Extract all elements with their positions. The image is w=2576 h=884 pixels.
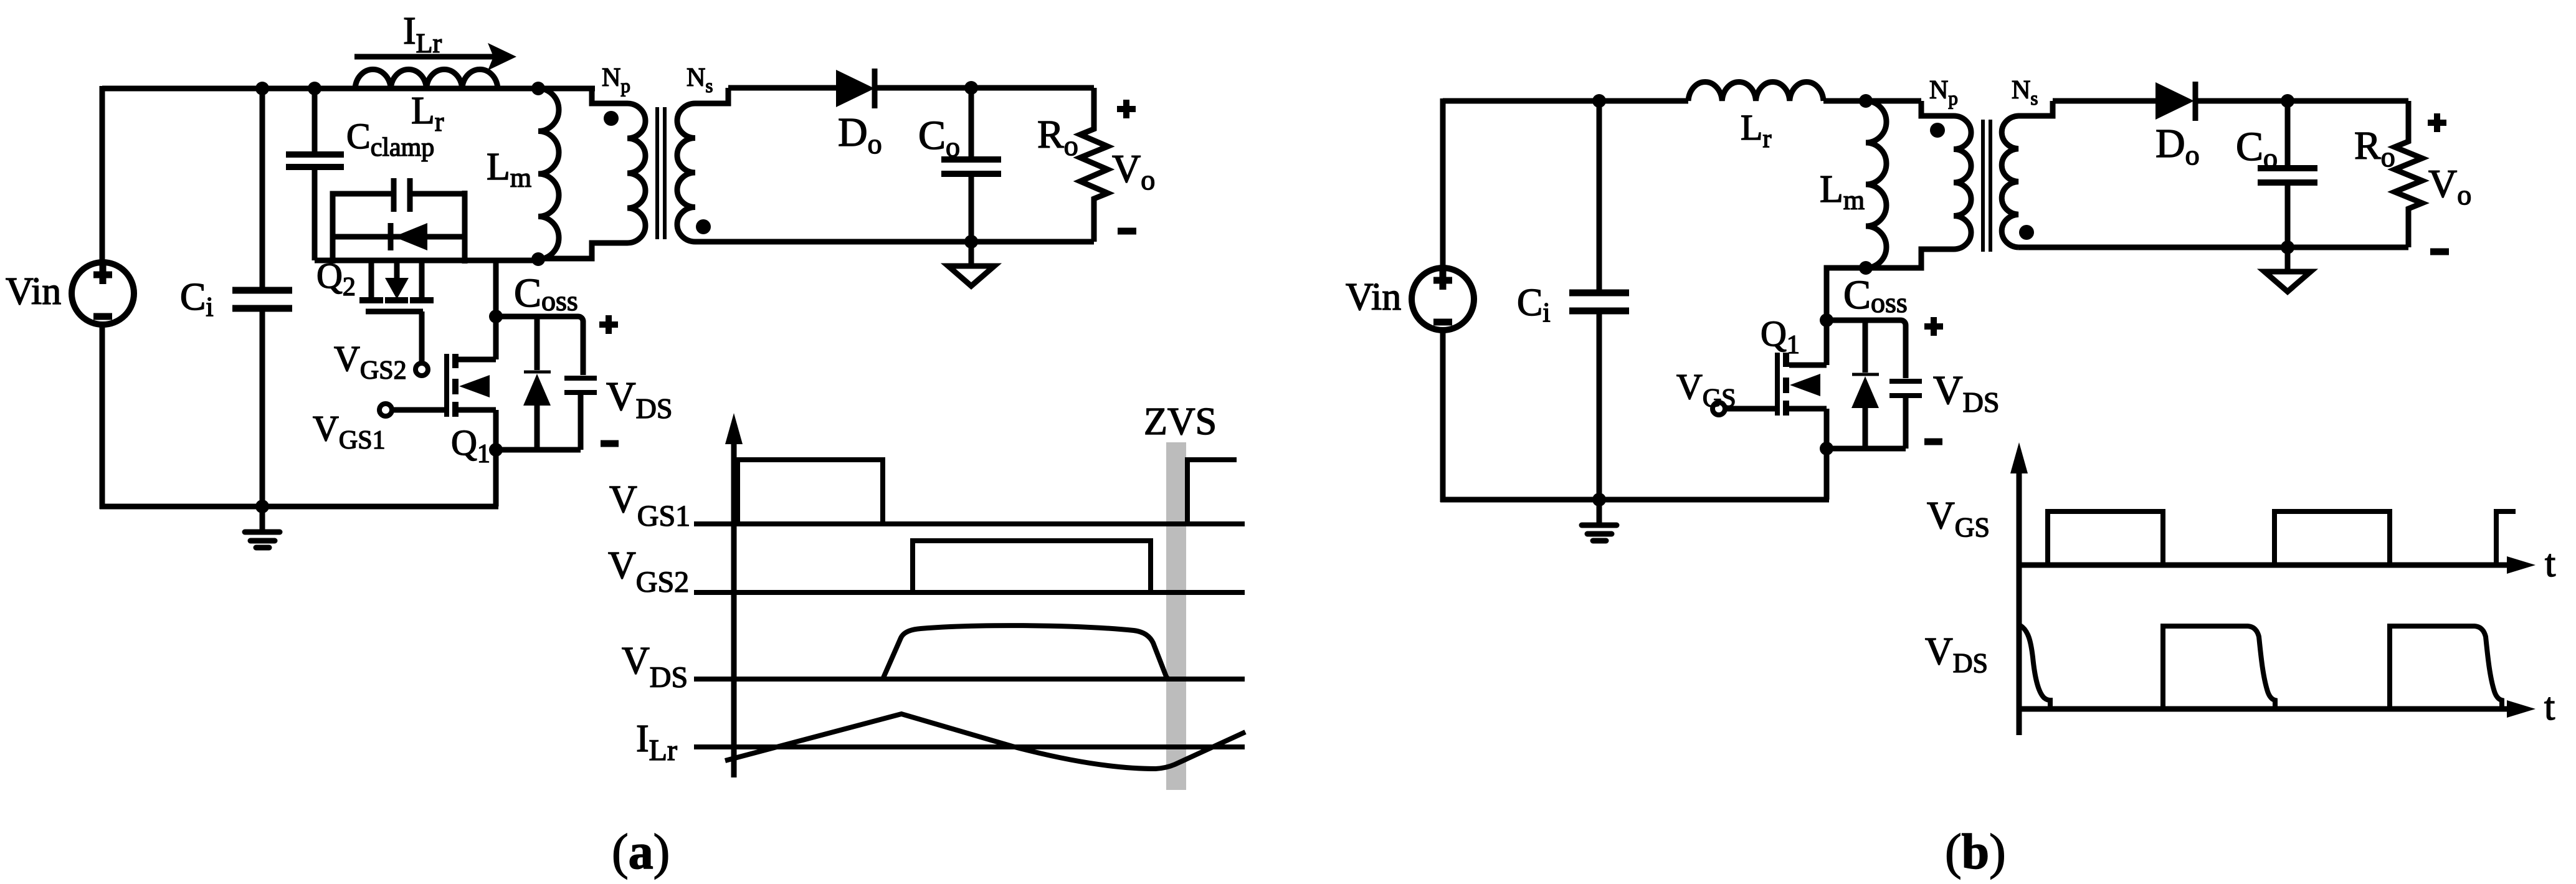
wire: left rail upper (b) <box>1440 98 1446 269</box>
minus sign output (a) <box>1118 228 1136 235</box>
capacitor Coss/VDS (b) <box>1889 381 1922 449</box>
junction node: Co bottom (a) <box>964 235 978 249</box>
junction node: Do-Co (b) <box>2281 94 2294 108</box>
wire: top rail (b) <box>1443 98 1688 104</box>
minus sign VDS (a) <box>601 440 619 447</box>
wire: Lm bottom to trunk (b) <box>1827 268 1866 365</box>
minus sign VDS (b) <box>1924 439 1942 445</box>
junction node: Coss node (b) <box>1820 313 1833 327</box>
junction node: ground node (b) <box>1592 493 1606 506</box>
inductor Lm (a) <box>538 88 559 259</box>
wire: Coss branch top (a) <box>496 316 583 375</box>
junction node: Lm top (b) <box>1859 94 1873 108</box>
junction node: Ci top (a) <box>255 82 269 95</box>
wire: bottom rail (a) <box>100 504 498 510</box>
svg-text:(a): (a) <box>612 825 670 880</box>
wire: node down from clamp rail to Coss node (a) <box>493 260 499 359</box>
time axis VGS (b) <box>2019 556 2536 574</box>
waveform VGS1 pulse (a) <box>738 460 1237 524</box>
transistor Q1 (b) <box>1777 353 1827 449</box>
wire: left rail upper (a) <box>100 86 105 263</box>
junction node: source node (b) <box>1820 442 1833 455</box>
ground symbol (a) <box>245 506 280 548</box>
junction node: Lm bottom (b) <box>1859 261 1873 275</box>
wire: secondary bottom rail (a) <box>695 239 1094 245</box>
inductor Lr (b) <box>1688 82 1823 101</box>
junction node: Lm top (a) <box>531 82 545 95</box>
clamp network frame wires (a) <box>333 191 465 264</box>
waveform VDS trapezoid (a) <box>883 625 1168 679</box>
inductor Lr (a) <box>355 69 498 88</box>
svg-text:Vin: Vin <box>1346 276 1401 318</box>
voltage source Vin (b) <box>1412 268 1474 330</box>
junction node: Co bottom (b) <box>2281 240 2294 254</box>
polarity dot Ns (a) <box>696 219 711 234</box>
polarity dot Np (b) <box>1930 123 1945 138</box>
body diode of Q1 (a) <box>523 316 551 450</box>
junction node: Ci top (b) <box>1592 94 1606 108</box>
wire: secondary bottom rail (b) <box>2018 245 2408 250</box>
transformer secondary winding Ns (a) <box>677 88 728 242</box>
capacitor Ci (b) <box>1569 101 1629 500</box>
plus sign output (a) <box>1117 100 1136 118</box>
capacitor Coss/VDS (a) <box>564 378 597 450</box>
junction node: source node (a) <box>489 443 503 457</box>
transistor Q1 (a) <box>447 354 496 450</box>
voltage source Vin (a) <box>72 262 134 325</box>
waveform axis vertical (a) <box>725 413 743 777</box>
wire: left rail lower (b) <box>1440 330 1446 502</box>
earth ground symbol (a) <box>948 242 994 286</box>
inductor Lm (b) <box>1866 101 1886 268</box>
junction node: Coss node (a) <box>489 310 503 323</box>
junction node: Cclamp top (a) <box>308 82 321 95</box>
junction node: Lm bottom (a) <box>531 252 545 266</box>
resistor Ro (a) <box>1080 88 1108 242</box>
transformer secondary winding Ns (b) <box>2002 101 2053 247</box>
plus sign VDS (b) <box>1924 317 1943 336</box>
body diode of Q1 (b) <box>1851 320 1879 449</box>
capacitor in clamp network (a) <box>394 178 410 212</box>
junction node: ground node (a) <box>255 500 269 513</box>
wire: top rail (a) <box>102 86 595 92</box>
capacitor Co (a) <box>941 88 1001 242</box>
transistor Q2 (a) <box>359 260 434 311</box>
transformer core (a) <box>657 107 665 239</box>
wire: secondary top rail left of Do (b) <box>2053 98 2158 104</box>
wire: top rail after Lr (b) <box>1823 98 1921 104</box>
minus sign output (b) <box>2430 249 2449 255</box>
svg-text:t: t <box>2545 543 2555 585</box>
diode Do (a) <box>836 69 875 108</box>
capacitor Cclamp (a) <box>286 88 344 260</box>
wire: Coss branch top (b) <box>1827 320 1906 378</box>
waveform VGS pulses (b) <box>2048 511 2516 565</box>
transformer core (b) <box>1983 120 1990 252</box>
svg-text:ZVS: ZVS <box>1144 401 1217 443</box>
diode in clamp network (a) <box>391 223 427 250</box>
baseline ILr (a) <box>694 744 1245 749</box>
diode Do (b) <box>2155 82 2195 121</box>
svg-text:(b): (b) <box>1945 825 2006 880</box>
wire: secondary top rail right of Do (a) <box>875 85 1094 91</box>
baseline VGS2 (a) <box>694 590 1245 595</box>
capacitor Ci (a) <box>232 88 292 506</box>
wire: Q1 source node bottom (a) <box>496 450 581 506</box>
wire: source node bottom (b) <box>1827 449 1906 500</box>
current arrow ILr (a) <box>354 43 516 70</box>
wire: left rail lower (a) <box>100 324 105 509</box>
wire: secondary top rail left of Do (a) <box>728 85 839 91</box>
waveform axis vertical (b) <box>2010 442 2028 735</box>
plus sign VDS (a) <box>599 315 618 334</box>
svg-text:Vin: Vin <box>6 270 61 313</box>
ground symbol (b) <box>1582 500 1617 541</box>
waveform VDS pulses (b) <box>2020 625 2502 709</box>
time axis VDS (b) <box>2019 700 2536 718</box>
polarity dot Ns (b) <box>2019 225 2034 240</box>
wire: clamp network bottom rail (a) <box>315 258 541 264</box>
transformer primary winding Np (a) <box>538 88 645 259</box>
waveform ILr triangle current (a) <box>725 714 1245 769</box>
transformer primary winding Np (b) <box>1866 101 1971 268</box>
junction node: Do-Co (a) <box>964 81 978 95</box>
gate wire VGS2 terminal (a) <box>416 311 428 376</box>
baseline VDS (a) <box>694 677 1245 682</box>
plus sign output (b) <box>2428 113 2446 132</box>
baseline VGS1 (a) <box>694 521 1245 526</box>
gate terminal VGS1 (a) <box>379 404 445 416</box>
gate terminal VGS (b) <box>1713 402 1775 415</box>
resistor Ro (b) <box>2395 101 2422 247</box>
svg-text:t: t <box>2544 686 2555 728</box>
polarity dot Np (a) <box>604 111 619 126</box>
wire: secondary top rail right of Do (b) <box>2195 98 2408 104</box>
waveform VGS2 pulse (a) <box>913 541 1151 592</box>
ZVS highlight bar (a) <box>1166 442 1186 790</box>
wire: bottom rail (b) <box>1440 497 1829 503</box>
earth ground symbol (b) <box>2265 247 2311 292</box>
capacitor Co (b) <box>2258 101 2317 247</box>
